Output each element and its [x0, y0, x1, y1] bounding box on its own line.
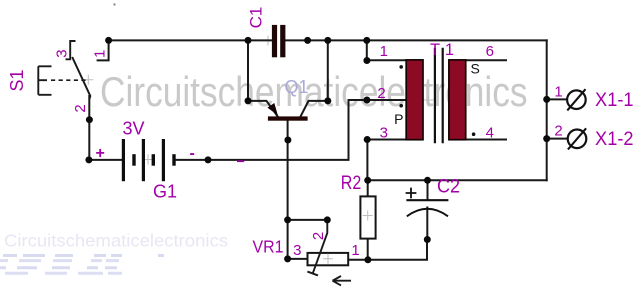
wire battery plus — [89, 159, 122, 161]
wire T1 pin3 to R2 — [367, 140, 406, 181]
terminal X1-1 — [567, 90, 586, 109]
wire R2 top lead — [367, 180, 369, 196]
wire T1 pin1 — [367, 40, 406, 60]
svg-text:S1: S1 — [7, 69, 27, 91]
wire battery minus to T1 pin2 — [176, 100, 406, 160]
resistor R2 body — [360, 196, 375, 238]
wire base stem — [287, 121, 289, 220]
svg-text:2: 2 — [310, 232, 327, 240]
svg-text:3: 3 — [53, 49, 70, 57]
terminal X1-2 — [568, 130, 587, 149]
wire emitter branch — [248, 40, 278, 116]
wire X1-1 stub — [547, 98, 567, 100]
wire bottom VR1-R2-C2 — [348, 240, 427, 260]
capacitor C2 top plate — [406, 199, 448, 201]
wire T1 pin4 stub — [466, 139, 506, 141]
switch S1 dashed link — [51, 79, 87, 81]
grid cross VR1 — [323, 254, 333, 264]
battery G1 plates — [122, 139, 176, 181]
potentiometer VR1 wiper — [313, 220, 328, 274]
wire C2 top lead — [427, 180, 429, 199]
svg-text:C2: C2 — [437, 175, 460, 197]
svg-text:C1: C1 — [247, 7, 266, 29]
svg-text:X1-1: X1-1 — [595, 90, 634, 111]
watermark dash stripes — [0, 256, 164, 274]
svg-text:2: 2 — [554, 123, 562, 140]
wire top rail left of C1 — [109, 39, 272, 41]
wire VR1 top — [288, 219, 328, 221]
wire switch to battery — [88, 96, 90, 160]
svg-text:S: S — [471, 60, 480, 76]
capacitor C2 curved plate — [407, 209, 448, 217]
svg-text:R2: R2 — [341, 172, 362, 194]
svg-text:2: 2 — [72, 104, 89, 112]
transformer T1 core — [435, 48, 443, 144]
svg-text:X1-2: X1-2 — [595, 129, 634, 150]
svg-text:1: 1 — [351, 242, 359, 259]
switch S1 actuator bracket — [38, 66, 51, 95]
wire R2 bottom lead — [367, 239, 369, 260]
svg-text:1: 1 — [380, 43, 388, 60]
wire top rail right of C1 — [285, 39, 547, 41]
svg-text:Circuitschematicelectronics: Circuitschematicelectronics — [4, 231, 228, 251]
svg-text:Q1: Q1 — [284, 77, 308, 97]
svg-text:2: 2 — [377, 85, 385, 102]
transformer phase dots — [399, 65, 403, 69]
wire pin1 bent stub top-left — [98, 40, 109, 60]
wire collector branch — [301, 40, 328, 116]
grid cross R2 — [363, 211, 373, 221]
grid cross marks — [83, 36, 433, 165]
svg-text:3: 3 — [293, 242, 301, 259]
svg-text:P: P — [394, 111, 403, 127]
transformer T1 secondary winding — [449, 60, 466, 140]
transistor Q1 emitter arrow — [267, 103, 278, 115]
transformer T1 primary winding — [406, 60, 423, 140]
label minus residue — [237, 160, 244, 162]
svg-text:VR1: VR1 — [253, 237, 284, 257]
transistor Q1 body — [268, 116, 308, 120]
switch S1 lever — [72, 57, 90, 99]
svg-text:1: 1 — [92, 50, 109, 58]
svg-text:4: 4 — [486, 125, 494, 142]
svg-text:G1: G1 — [153, 182, 177, 202]
svg-text:3: 3 — [380, 125, 388, 142]
wire C2 bottom lead — [426, 208, 428, 240]
potentiometer VR1 arrow — [333, 276, 352, 285]
svg-text:1: 1 — [554, 84, 562, 101]
wire T1 pin6 stub — [466, 59, 506, 61]
wire X1-2 stub — [547, 138, 567, 140]
svg-text:-: - — [190, 145, 195, 162]
speck artifact — [113, 3, 115, 5]
potentiometer VR1 body — [308, 253, 349, 265]
capacitor C1 plates — [272, 25, 286, 57]
svg-text:6: 6 — [486, 43, 494, 60]
capacitor C2 plus sign — [406, 188, 417, 199]
wire right rail down — [546, 40, 548, 180]
svg-text:3V: 3V — [122, 119, 144, 139]
svg-text:+: + — [96, 145, 105, 162]
switch S1 pin3 stub — [66, 41, 76, 59]
wire VR1 left leg — [288, 220, 308, 259]
potentiometer VR1 wiper tick — [307, 272, 318, 276]
wire bottom right — [368, 179, 547, 181]
